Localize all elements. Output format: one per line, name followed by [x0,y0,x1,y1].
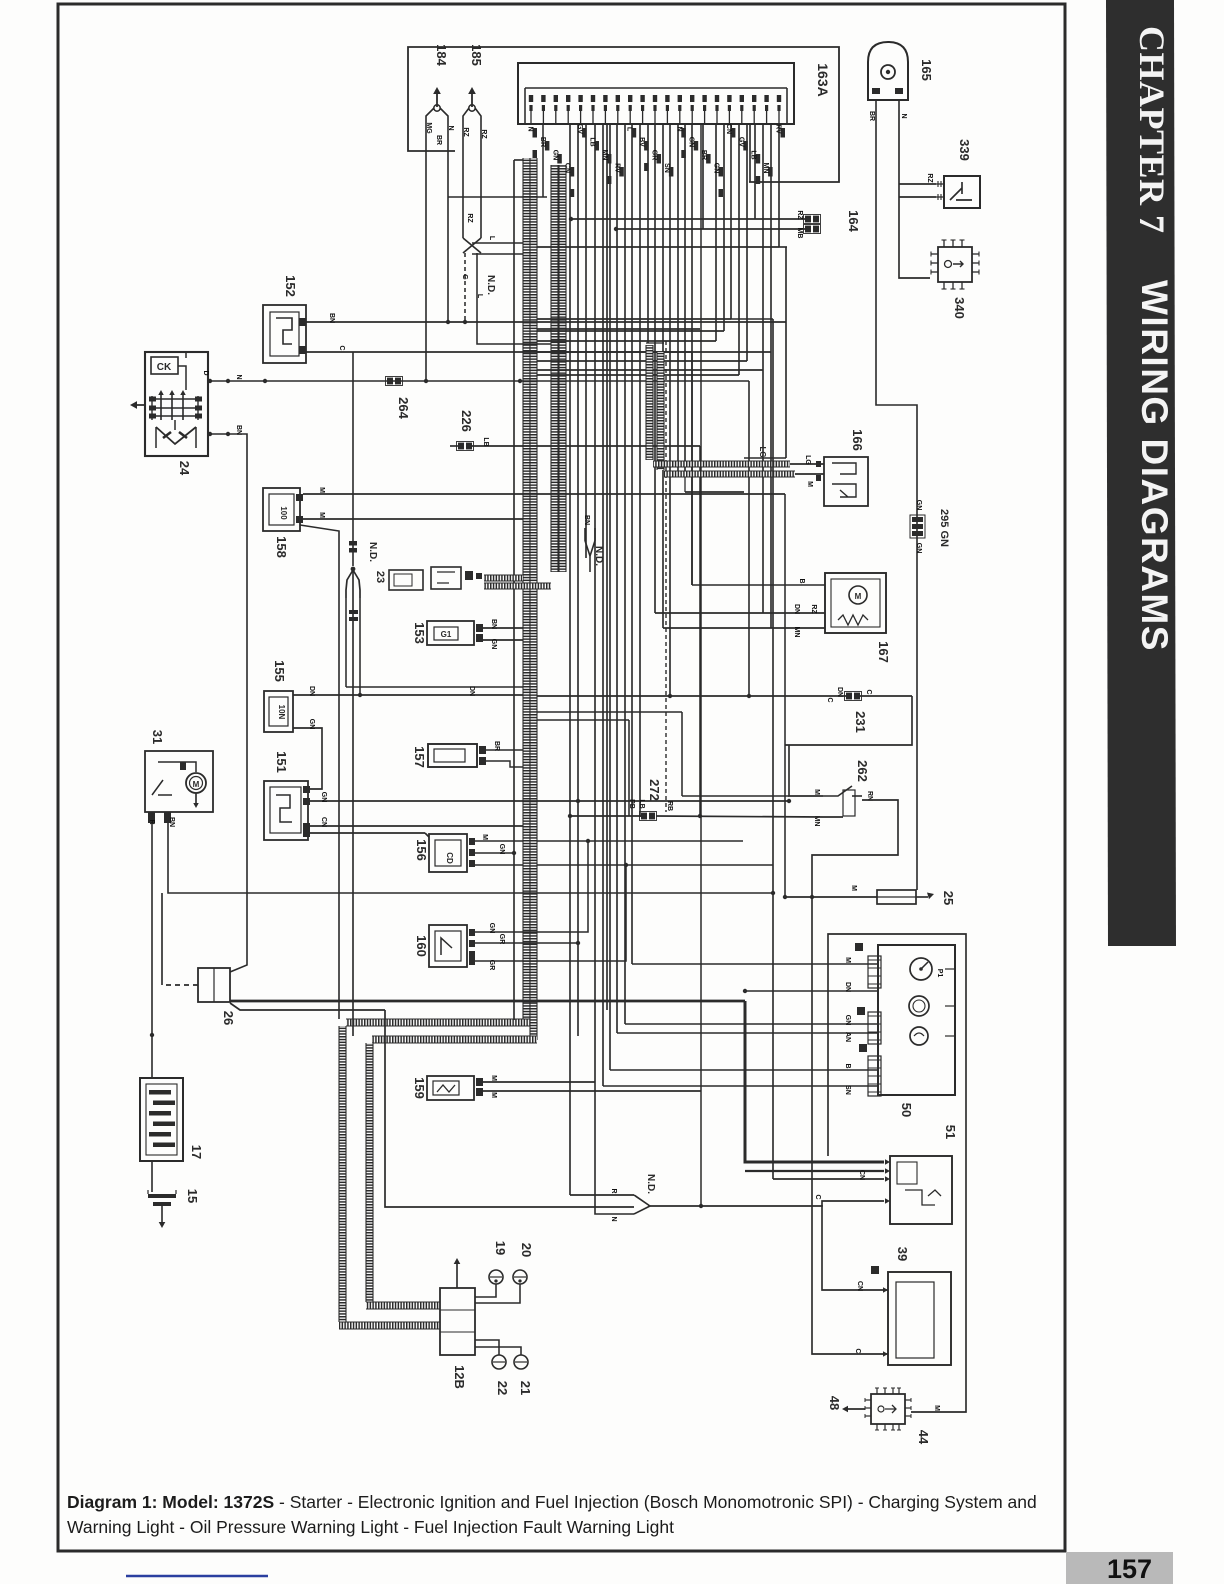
svg-text:BN: BN [328,313,335,323]
svg-text:N: N [610,1216,617,1221]
battery feed (thick) [230,1000,745,1003]
svg-text:GN: GN [551,150,558,161]
svg-text:R: R [148,819,155,824]
svg-text:M: M [193,780,200,789]
svg-text:CN: CN [858,1170,865,1180]
svg-text:GN: GN [713,163,720,174]
svg-text:M: M [806,481,813,487]
connector 295 [912,517,923,522]
svg-text:L: L [626,127,633,132]
svg-text:RV: RV [775,124,782,134]
svg-text:C: C [854,1348,861,1353]
svg-text:BR: BR [493,741,500,751]
svg-text:44: 44 [916,1430,931,1445]
svg-text:C: C [338,345,345,350]
svg-text:RZ: RZ [926,173,933,183]
svg-text:166: 166 [850,429,865,451]
svg-text:295 GN: 295 GN [938,509,950,547]
fusebox 17 [140,1078,183,1161]
svg-text:M: M [490,1092,497,1098]
svg-text:21: 21 [518,1381,533,1395]
wire via 822 down [822,1205,888,1290]
svg-text:CN: CN [725,124,732,134]
svg-text:31: 31 [150,730,165,744]
svg-text:160: 160 [414,935,429,957]
svg-text:MN: MN [762,163,769,174]
svg-text:GN: GN [308,719,315,730]
connectors 164 [571,218,806,220]
svg-text:19: 19 [493,1241,508,1255]
ignition coil 165 [868,42,908,100]
blue underline [126,1575,268,1578]
svg-text:M: M [318,487,325,493]
svg-text:N.D.: N.D. [645,1174,656,1194]
chapter sidebar [1106,0,1176,946]
sensor 153 [427,621,474,645]
svg-text:M: M [855,592,862,601]
svg-text:BR: BR [435,135,442,145]
switch 151 [264,781,308,840]
svg-text:DN: DN [468,686,475,696]
svg-text:CD: CD [445,852,454,864]
svg-text:DN: DN [793,604,800,614]
svg-text:N: N [675,126,682,131]
svg-text:39: 39 [895,1247,910,1261]
svg-text:BN: BN [168,817,175,827]
relay 166 [824,457,868,506]
svg-text:DN: DN [844,982,851,992]
svg-text:C: C [865,689,872,694]
control unit 340 [938,247,972,282]
svg-text:185: 185 [469,44,484,66]
connector 26 [198,968,230,1002]
svg-text:GN: GN [915,500,922,511]
svg-text:LB: LB [482,437,489,446]
trident junction 23 [352,352,354,566]
lighter 12B [440,1288,475,1355]
nested corner wires [537,340,716,342]
svg-text:RZ: RZ [466,213,473,223]
svg-text:DN: DN [308,686,315,696]
svg-text:CN: CN [856,1281,863,1291]
svg-text:22: 22 [495,1381,510,1395]
svg-text:BN: BN [490,619,497,629]
throttle switch N.D. [463,238,481,253]
connector 158 [263,488,300,531]
svg-text:G1: G1 [441,630,452,639]
svg-text:BR: BR [868,111,875,121]
272 feeder wires [537,719,629,721]
svg-text:GN: GN [844,1015,851,1026]
svg-text:23: 23 [374,571,386,583]
svg-text:LB: LB [638,799,645,808]
svg-text:GN: GN [498,844,505,855]
svg-text:MB: MB [796,228,803,239]
svg-text:GN: GN [915,543,922,554]
wire 165 right leg [899,110,930,278]
motor 31 [145,751,213,812]
svg-text:10N: 10N [277,705,286,720]
switch 155 [264,691,293,732]
svg-text:BN: BN [583,515,590,525]
wire bundle B (hatched) [551,165,558,572]
svg-text:P1: P1 [936,969,943,978]
svg-text:12B: 12B [452,1365,467,1389]
svg-text:17: 17 [189,1145,204,1159]
svg-text:157: 157 [1107,1554,1152,1584]
svg-text:RZ: RZ [480,129,487,139]
svg-text:N.D.: N.D. [593,546,604,566]
svg-text:MN: MN [793,627,800,638]
svg-text:167: 167 [876,641,891,663]
relay 339 [944,176,980,208]
svg-text:LG: LG [804,455,811,465]
svg-text:GN: GN [488,923,495,934]
svg-text:272: 272 [647,779,662,801]
svg-text:B: B [798,578,805,583]
svg-text:M: M [813,789,820,795]
svg-text:15: 15 [185,1189,200,1203]
svg-text:N: N [235,374,242,379]
svg-text:BN: BN [235,425,242,435]
connector 152 [263,305,306,363]
svg-text:26: 26 [221,1011,236,1025]
svg-text:SN: SN [663,163,670,173]
svg-text:231: 231 [853,711,868,733]
svg-text:R: R [610,1188,617,1193]
svg-text:Diagram 1: Model: 1372S - Star: Diagram 1: Model: 1372S - Starter - Elec… [67,1492,1037,1512]
connector 231 [537,695,847,697]
wire 165 left leg [876,110,917,890]
battery/earth 15 [148,1194,176,1198]
svg-text:GV: GV [737,137,744,147]
svg-text:MN: MN [601,150,608,161]
svg-text:50: 50 [899,1103,914,1117]
svg-text:D: D [202,370,209,375]
svg-text:48: 48 [827,1396,842,1410]
svg-text:MG: MG [425,122,432,134]
svg-text:51: 51 [943,1125,958,1139]
svg-text:LB: LB [750,150,757,159]
svg-text:M: M [490,1075,497,1081]
svg-text:RV: RV [613,163,620,173]
24 wire A [210,380,749,382]
wire to 166 [537,246,779,248]
svg-text:339: 339 [957,139,972,161]
instrument cluster 50 [878,945,955,1095]
svg-text:GN: GN [320,792,327,803]
svg-text:RZ: RZ [462,127,469,137]
svg-text:BR: BR [539,137,546,147]
svg-text:CHAPTER 7: CHAPTER 7 [1132,26,1172,234]
svg-text:RB: RB [666,801,673,811]
svg-text:LB: LB [589,137,596,146]
svg-text:155: 155 [272,660,287,682]
svg-text:20: 20 [519,1243,534,1257]
svg-text:262: 262 [855,760,870,782]
svg-text:B: B [844,1063,851,1068]
svg-text:M: M [850,885,857,891]
svg-text:AN: AN [844,1032,851,1042]
wires into 50 [632,963,878,965]
svg-text:RZ: RZ [810,604,817,614]
svg-text:184: 184 [434,44,449,66]
svg-text:340: 340 [952,297,967,319]
ECU pin wires [569,124,571,1195]
svg-text:157: 157 [412,746,427,768]
svg-text:M: M [844,957,851,963]
svg-text:C: C [826,697,833,702]
pump 167 [825,573,886,633]
svg-text:N: N [527,126,534,131]
svg-text:PB: PB [628,799,635,809]
sensor 159 [427,1076,474,1100]
svg-text:GR: GR [498,934,505,945]
svg-text:156: 156 [414,839,429,861]
svg-text:153: 153 [412,622,427,644]
svg-text:163A: 163A [815,63,831,96]
wire loop top [408,47,839,182]
svg-text:24: 24 [177,461,192,476]
svg-text:226: 226 [459,410,474,432]
24 wire B [210,434,247,972]
svg-text:CK: CK [157,362,172,373]
svg-text:GR: GR [651,150,658,161]
ECU connector 163A [518,63,794,124]
svg-text:164: 164 [846,210,861,232]
svg-text:GN: GN [688,137,695,148]
svg-text:M: M [933,1405,940,1411]
svg-text:25: 25 [941,891,956,905]
svg-text:CN: CN [320,817,327,827]
svg-text:M: M [318,512,325,518]
svg-text:151: 151 [274,751,289,773]
svg-text:GR: GR [488,960,495,971]
svg-text:SN: SN [844,1085,851,1095]
svg-text:GN: GN [490,639,497,650]
152 wires [306,321,786,323]
sockets 19 20 [489,1270,503,1284]
svg-text:C: C [814,1194,821,1199]
svg-text:N: N [900,113,907,118]
svg-text:N: N [447,125,454,130]
svg-text:RZ: RZ [796,210,803,220]
diode unit 44 [871,1394,905,1424]
fuse 25 [877,890,916,904]
svg-text:L: L [488,236,495,241]
svg-text:BV: BV [638,137,645,147]
svg-text:100: 100 [279,506,288,520]
svg-text:LG: LG [758,446,767,457]
svg-text:165: 165 [919,59,934,81]
sensor 157 [428,744,477,767]
enclosure wire [828,934,966,1412]
page number box [1066,1552,1173,1584]
sockets 22 21 [492,1355,506,1369]
svg-text:WIRING DIAGRAMS: WIRING DIAGRAMS [1134,280,1175,652]
band feeder wires [537,840,743,842]
svg-text:159: 159 [412,1077,427,1099]
svg-text:L: L [476,294,483,299]
svg-text:G: G [461,274,468,280]
switch 156 [429,834,467,872]
svg-text:N.D.: N.D. [485,275,496,295]
svg-text:N.D.: N.D. [367,542,378,562]
svg-text:M: M [481,834,488,840]
svg-text:152: 152 [283,275,298,297]
svg-text:Warning Light - Oil Pressure W: Warning Light - Oil Pressure Warning Lig… [67,1517,674,1537]
ignition switch 24 [145,352,208,456]
svg-text:264: 264 [396,397,411,419]
wire bundle A (hatched) [523,158,530,1022]
svg-text:CN: CN [564,163,571,173]
svg-text:158: 158 [274,536,289,558]
injection unit chain 23 [389,570,423,590]
bottom fork [570,1194,634,1196]
switch 160 [429,925,467,967]
svg-text:GV: GV [576,124,583,134]
svg-text:DN: DN [836,687,843,697]
